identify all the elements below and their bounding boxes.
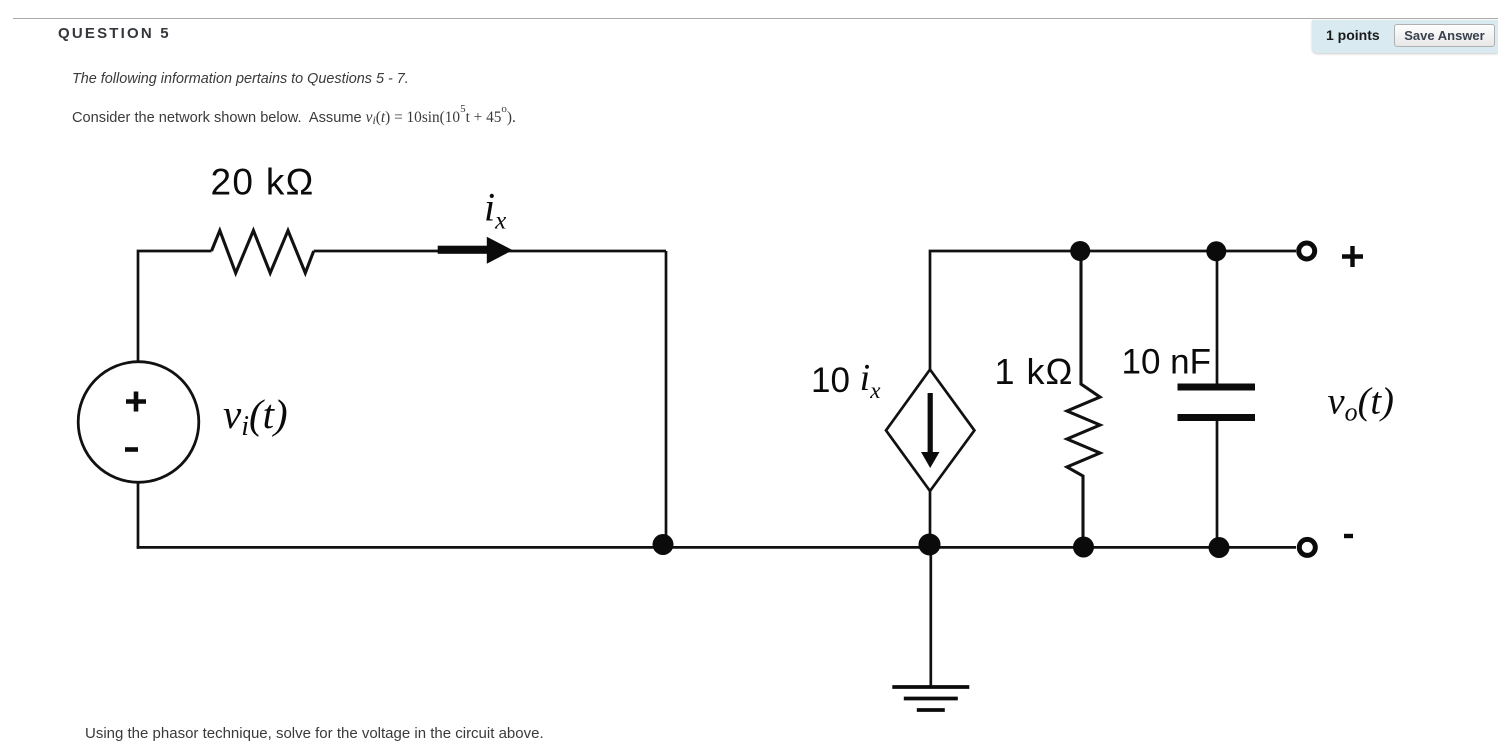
wire top middle: [314, 250, 666, 253]
node junction R top: [1070, 241, 1090, 261]
current arrow ix: [438, 237, 513, 264]
points box: [1312, 20, 1498, 53]
wire left vertical top: [138, 251, 212, 362]
node junction C bottom: [1209, 537, 1230, 558]
wire bottom rail: [137, 546, 1296, 549]
wire diamond to bottom rail: [929, 491, 932, 547]
wire top-right rail: [930, 251, 1296, 370]
dependent source U1 diamond: [886, 370, 974, 492]
terminal bottom open circle: [1299, 539, 1315, 555]
ground stem: [929, 547, 932, 687]
bottom cut-off text: [85, 725, 544, 742]
svg-text:10 ix: 10 ix: [811, 357, 881, 403]
capacitor C1 bottom wire: [1216, 421, 1219, 547]
node junction R bottom: [1073, 537, 1094, 558]
minus sign in source: [125, 447, 138, 452]
save answer button: [1394, 24, 1495, 47]
svg-text:10 nF: 10 nF: [1122, 343, 1212, 382]
question header: [58, 25, 171, 42]
dependent source arrow: [921, 393, 940, 468]
intro italic line: [72, 71, 409, 87]
problem statement: [72, 109, 516, 128]
terminal plus label: [1342, 246, 1363, 267]
terminal minus label: [1344, 534, 1353, 538]
node junction left: [653, 534, 674, 555]
terminal top open circle: [1299, 243, 1315, 259]
node junction source bottom: [919, 534, 941, 556]
svg-text:vi(t): vi(t): [223, 391, 288, 442]
svg-text:ix: ix: [484, 185, 506, 235]
plus sign in source: [126, 392, 146, 412]
resistor R1 20k zigzag: [212, 231, 314, 274]
svg-text:20 kΩ: 20 kΩ: [211, 162, 315, 203]
capacitor C1 plates: [1178, 384, 1256, 422]
wire left vertical bottom: [137, 482, 140, 549]
top divider line: [13, 18, 1498, 19]
resistor R2 1k vertical: [1067, 251, 1100, 547]
voltage source Vi circle: [78, 362, 199, 483]
node junction C top: [1206, 241, 1226, 261]
ground symbol: [892, 687, 969, 710]
wire right vertical of left loop: [665, 251, 668, 547]
svg-text:vo(t): vo(t): [1328, 381, 1394, 427]
svg-text:1 kΩ: 1 kΩ: [995, 351, 1074, 392]
capacitor C1 top wire: [1216, 251, 1219, 384]
